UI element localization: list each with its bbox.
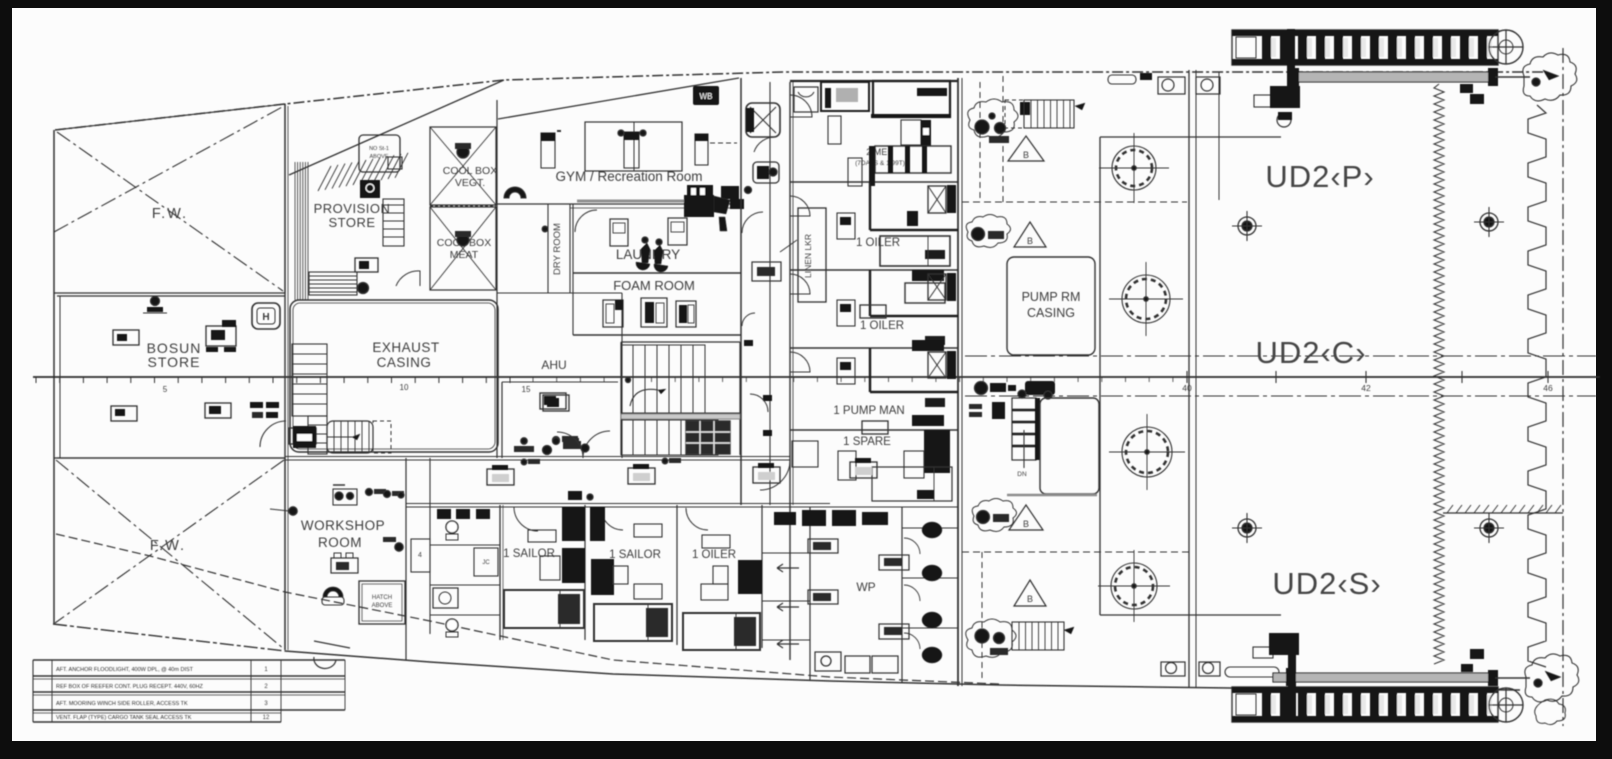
foam washer 1 bbox=[603, 300, 623, 327]
corridor end arc bbox=[760, 460, 790, 490]
svg-text:5: 5 bbox=[163, 385, 168, 394]
deck dashed line v3 bbox=[981, 552, 983, 680]
gym treadmill 1 bbox=[541, 131, 561, 168]
svg-text:B: B bbox=[1027, 236, 1033, 246]
provision hatched wall strip bbox=[295, 162, 308, 300]
sailor2 bed bbox=[594, 604, 672, 641]
cool box divider dashed bbox=[430, 205, 496, 207]
deck dashed line h top bbox=[962, 201, 1187, 203]
cabin divider 3 bbox=[790, 347, 958, 349]
aft perpendicular dash-dot bbox=[1562, 48, 1564, 726]
gym dark unit a bbox=[687, 185, 713, 199]
trunk top line bbox=[1100, 136, 1281, 138]
svg-text:STORE: STORE bbox=[148, 354, 201, 370]
bosun mirror crate 2 bbox=[205, 403, 231, 418]
foam room walls bbox=[573, 274, 741, 335]
stern ladder top bbox=[1232, 30, 1498, 65]
cabin3 wc unit bbox=[928, 273, 956, 301]
sailor2 locker bbox=[590, 507, 662, 541]
svg-text:DRY ROOM: DRY ROOM bbox=[552, 223, 563, 275]
stern sawtooth break bbox=[1528, 105, 1546, 667]
wp box 2 bbox=[808, 590, 838, 604]
notes table grid bbox=[33, 660, 345, 722]
bosun store label bbox=[147, 340, 202, 370]
cabin1 armchair bbox=[794, 87, 818, 112]
deck dashed line h bot bbox=[962, 551, 1189, 553]
main stair lower flight bbox=[621, 420, 718, 455]
deck fitting cross 1 bbox=[1232, 211, 1262, 241]
svg-text:1 SAILOR: 1 SAILOR bbox=[503, 548, 555, 560]
svg-text:H: H bbox=[262, 312, 269, 323]
provision scale blob bbox=[360, 180, 380, 198]
cabin2 bed bbox=[880, 236, 950, 266]
cloud1 dots bbox=[975, 113, 1009, 143]
wc toilet 1 bbox=[446, 521, 458, 540]
foam washer 3 bbox=[676, 301, 696, 327]
stern ladder bottom end circle bbox=[1489, 688, 1523, 722]
collision bulkhead fr double bbox=[285, 104, 288, 650]
wc arrows bbox=[777, 564, 799, 648]
corridor handle 1 bbox=[521, 459, 540, 465]
workshop phone bbox=[322, 587, 344, 605]
AHU room walls bbox=[497, 100, 622, 458]
AHU valve dot bbox=[553, 436, 579, 444]
svg-text:FOAM ROOM: FOAM ROOM bbox=[613, 278, 695, 293]
cabin4 desk bbox=[837, 358, 855, 384]
wp box 1 bbox=[808, 539, 838, 553]
stair block walls bbox=[621, 342, 740, 455]
manhole hatch 1 bbox=[1099, 133, 1169, 203]
svg-text:JC: JC bbox=[482, 560, 490, 566]
svg-text:MEAT: MEAT bbox=[450, 249, 479, 261]
svg-text:B: B bbox=[1027, 594, 1033, 604]
cool box vegt outline bbox=[430, 127, 496, 205]
workshop walls bbox=[406, 458, 430, 660]
laundry figures bbox=[636, 237, 668, 272]
svg-text:VEGT.: VEGT. bbox=[455, 177, 485, 189]
davit post bottom bbox=[1288, 640, 1296, 720]
cool box compressor 1 bbox=[455, 143, 471, 158]
deck slot bottom bbox=[1225, 667, 1279, 677]
cabin2 wc walls bbox=[870, 182, 958, 230]
cool box compressor 2 bbox=[455, 231, 471, 246]
manhole hatch 3 bbox=[1109, 414, 1185, 490]
gym dark unit b bbox=[721, 186, 752, 199]
stern cloud top bbox=[1523, 53, 1577, 101]
room15 valve bbox=[521, 438, 579, 445]
bollard pair bottom bbox=[1161, 662, 1220, 676]
workshop wall dot bbox=[270, 507, 297, 515]
room15 walls bbox=[502, 382, 618, 458]
deck fitting cross 3 bbox=[1232, 513, 1262, 543]
stern rail top bbox=[1290, 68, 1530, 86]
svg-text:4: 4 bbox=[418, 552, 422, 559]
svg-text:1 OILER: 1 OILER bbox=[860, 320, 904, 332]
exhaust stair wide bbox=[292, 344, 327, 416]
notes table row4 bbox=[56, 715, 270, 721]
linen locker bbox=[798, 208, 826, 302]
cool box vegt label bbox=[443, 165, 497, 189]
hatch above box fwd bbox=[359, 135, 400, 172]
dumbwaiter grid bbox=[686, 421, 730, 454]
wp box 4 bbox=[879, 624, 909, 639]
bosun aft label cluster bbox=[250, 402, 279, 418]
gym treadmill 3 bbox=[695, 134, 737, 165]
svg-text:ABOVE: ABOVE bbox=[372, 603, 393, 609]
stern small blocks top bbox=[1460, 84, 1484, 104]
aft stair down bbox=[1012, 398, 1040, 478]
wc box bbox=[474, 548, 498, 576]
cabin1 side boxes bbox=[848, 158, 862, 186]
svg-text:WP: WP bbox=[856, 580, 875, 594]
bosun person symbol bbox=[143, 297, 167, 314]
AHU door arc bbox=[583, 431, 610, 458]
cabin1 door arc bbox=[790, 95, 812, 117]
provision crate bbox=[355, 258, 378, 272]
pump rm casing bbox=[1007, 257, 1095, 355]
bosun aft wall bbox=[57, 457, 285, 459]
wp walls bbox=[762, 507, 902, 682]
warning triangle 4 bbox=[1014, 580, 1046, 606]
cabin1 table bbox=[901, 120, 931, 146]
dry room dot bbox=[542, 226, 548, 232]
upper FW tank diagonal a bbox=[57, 132, 283, 291]
bosun mirror desk bbox=[289, 428, 316, 444]
manhole hatch 4 bbox=[1098, 550, 1170, 622]
provision small box bbox=[388, 157, 402, 169]
svg-text:WB: WB bbox=[700, 92, 713, 101]
fairlead bump on deck edge bbox=[314, 657, 336, 669]
hatch symbol H bbox=[252, 303, 280, 329]
corridor door arc 1 bbox=[742, 212, 763, 233]
stern rail bottom bbox=[1273, 668, 1530, 686]
svg-text:46: 46 bbox=[1543, 383, 1553, 393]
cabin2 door arc bbox=[790, 196, 810, 216]
deck stair top bbox=[1005, 100, 1085, 128]
sailor cabin walls bbox=[585, 505, 762, 648]
corridor label box 2 bbox=[628, 464, 655, 484]
wc stack walls bbox=[430, 505, 503, 640]
deck fitting cross 4 bbox=[1474, 513, 1504, 543]
corridor phone bbox=[753, 162, 779, 183]
sailor1 locker bbox=[528, 507, 585, 542]
small cell 4 bbox=[411, 539, 430, 572]
machinery cloud 2 bbox=[966, 215, 1010, 248]
foam washer 2 bbox=[641, 298, 667, 327]
exhaust casing label bbox=[372, 340, 439, 370]
upper FW tank diagonal b bbox=[54, 106, 284, 232]
deck dashed line v1 bbox=[979, 82, 981, 202]
svg-text:CASING: CASING bbox=[1027, 306, 1075, 320]
davit fittings top bbox=[1254, 86, 1300, 127]
svg-text:NO St-1: NO St-1 bbox=[369, 146, 389, 152]
bosun aft door arc bbox=[260, 421, 286, 447]
laundry top dark blob bbox=[684, 195, 744, 231]
wc stack sink row bbox=[437, 509, 490, 519]
svg-text:STORE: STORE bbox=[328, 215, 375, 230]
svg-text:LINEN LKR: LINEN LKR bbox=[803, 234, 813, 278]
frame ruler ticks bbox=[36, 371, 1548, 383]
short ramp line bbox=[314, 641, 350, 648]
deck fitting cross 2 bbox=[1474, 207, 1504, 237]
hatched datum line bbox=[1443, 505, 1563, 513]
svg-text:COOL BOX: COOL BOX bbox=[443, 165, 497, 177]
notes table row1 bbox=[56, 667, 268, 673]
machinery cloud 3 bbox=[972, 499, 1016, 532]
deckhouse top wall bbox=[790, 80, 958, 82]
bow inner wall bbox=[59, 296, 61, 458]
corridor lower wall bbox=[406, 504, 958, 508]
oiler3 desk bbox=[701, 566, 728, 600]
bosun item crate 1 bbox=[113, 330, 139, 345]
gym bottom wall bbox=[497, 201, 741, 204]
workshop label bbox=[301, 518, 385, 550]
svg-text:PUMP RM: PUMP RM bbox=[1022, 290, 1081, 304]
warning triangle 3 bbox=[1009, 505, 1043, 530]
break zigzag line bbox=[1434, 84, 1444, 664]
corridor label box 1 bbox=[487, 465, 514, 485]
hull shell line aft (dashed) bbox=[56, 534, 1000, 684]
centerline CL bbox=[33, 376, 1600, 378]
stair curved arrow bbox=[626, 378, 667, 407]
cabin3 bits bbox=[905, 283, 945, 351]
corridor wall fwd b bbox=[769, 82, 771, 505]
deckhouse front sloped wall bbox=[289, 80, 504, 175]
trunk bottom line bbox=[1100, 614, 1281, 616]
wc washer bbox=[433, 588, 458, 608]
svg-text:WORKSHOP: WORKSHOP bbox=[301, 518, 385, 533]
corridor diagonal pipe bbox=[780, 240, 797, 252]
svg-text:DN: DN bbox=[1017, 471, 1027, 478]
duct line lower (dash-dot) bbox=[965, 395, 1596, 397]
cabin1 bed bbox=[871, 81, 951, 118]
cabin3 door arc bbox=[790, 274, 810, 294]
corridor door arc 2 bbox=[742, 313, 755, 326]
cabin4 bits bbox=[862, 398, 945, 434]
toilet bowls bbox=[922, 522, 942, 663]
svg-text:40: 40 bbox=[1182, 383, 1192, 393]
corridor wall fwd a bbox=[740, 78, 742, 505]
sailor2 wardrobe bbox=[591, 559, 662, 599]
cabin3 wc walls bbox=[870, 270, 958, 316]
workshop valves mid bbox=[366, 489, 405, 499]
svg-text:B: B bbox=[1023, 150, 1029, 160]
cloud3 dots bbox=[977, 511, 1010, 524]
hull sheer line top bbox=[55, 72, 1545, 130]
svg-text:REF BOX OF REEFER CONT. PLUG R: REF BOX OF REEFER CONT. PLUG RECEPT. 440… bbox=[56, 684, 203, 690]
oiler3 locker bbox=[702, 535, 762, 594]
svg-text:10: 10 bbox=[400, 383, 409, 392]
gym front wall bbox=[498, 78, 739, 119]
stair landing strip bbox=[621, 414, 740, 419]
lower FW tank diagonal a bbox=[56, 460, 284, 649]
exhaust stair narrow bbox=[308, 416, 327, 454]
room15 crate bbox=[543, 395, 569, 411]
svg-text:EXHAUST: EXHAUST bbox=[372, 340, 439, 355]
dry room walls bbox=[548, 204, 570, 293]
davit post top bbox=[1287, 29, 1295, 89]
sailor1 bed bbox=[504, 590, 584, 628]
svg-text:1 OILER: 1 OILER bbox=[856, 237, 900, 249]
trunk rail posts bbox=[1189, 70, 1196, 688]
oiler3 door arc bbox=[686, 508, 708, 530]
warning triangle 1 bbox=[1008, 136, 1044, 161]
cabin2 wc unit bbox=[928, 185, 956, 213]
sink row bbox=[774, 510, 888, 526]
CL winch cluster bbox=[975, 381, 1056, 399]
hatch joint line bbox=[1218, 72, 1220, 200]
svg-text:1 OILER: 1 OILER bbox=[692, 549, 736, 561]
svg-text:1 SAILOR: 1 SAILOR bbox=[609, 549, 661, 561]
spare furniture bbox=[792, 430, 952, 501]
fire box corridor bbox=[752, 262, 781, 281]
corridor door arc top bbox=[754, 137, 776, 152]
svg-text:UD2‹S›: UD2‹S› bbox=[1272, 566, 1381, 601]
cabin2 bits bbox=[907, 211, 945, 281]
toilet door arcs bbox=[904, 538, 920, 649]
corridor upper wall bbox=[285, 457, 790, 461]
wp box 3 bbox=[879, 555, 909, 570]
svg-text:ROOM: ROOM bbox=[318, 535, 362, 550]
workshop wall dot 2 bbox=[383, 537, 403, 551]
davit fittings bottom bbox=[1253, 633, 1299, 658]
warning triangle 2 bbox=[1014, 222, 1046, 247]
cool box meat label bbox=[437, 237, 491, 261]
cabin 2MEN label bbox=[855, 147, 905, 167]
svg-text:1 PUMP MAN: 1 PUMP MAN bbox=[833, 405, 904, 417]
svg-text:12: 12 bbox=[263, 715, 270, 721]
laundry washer 2 bbox=[668, 218, 687, 245]
svg-text:UD2‹P›: UD2‹P› bbox=[1265, 159, 1374, 194]
workshop battery bbox=[331, 553, 358, 573]
svg-text:B: B bbox=[1023, 519, 1029, 529]
gym table bbox=[585, 122, 682, 171]
lower FW tank diagonal b bbox=[55, 460, 284, 623]
aft small room bbox=[1007, 398, 1099, 495]
cabin1 locker row bbox=[869, 146, 951, 186]
sloped hatch marks bbox=[318, 153, 408, 191]
deck dashed line v2 bbox=[1002, 76, 1004, 202]
oiler3 bed bbox=[683, 613, 760, 650]
cabin2 desk bbox=[837, 213, 855, 239]
stern ladder bottom bbox=[1232, 687, 1498, 722]
cabin divider 4 bbox=[790, 429, 958, 431]
stern small blocks bottom bbox=[1461, 649, 1484, 672]
svg-text:(7DAYS & 1 99T): (7DAYS & 1 99T) bbox=[855, 160, 905, 167]
gym WB box bbox=[693, 86, 719, 105]
cabin4 wc walls bbox=[870, 348, 958, 392]
AHU crate bbox=[540, 393, 566, 409]
cabin4 door arc bbox=[790, 352, 810, 372]
cloud4 dots bbox=[975, 629, 1008, 655]
machinery cloud 1 bbox=[968, 99, 1018, 137]
cabin divider 2 bbox=[790, 269, 958, 271]
svg-text:42: 42 bbox=[1361, 383, 1371, 393]
svg-text:PROVISION: PROVISION bbox=[314, 201, 391, 216]
corridor wall marks bbox=[744, 340, 772, 436]
svg-text:AFT. ANCHOR FLOODLIGHT, 400W D: AFT. ANCHOR FLOODLIGHT, 400W DPL, @ 40m … bbox=[56, 667, 194, 673]
svg-text:F.W.: F.W. bbox=[152, 206, 188, 222]
sailor1 door arc bbox=[514, 507, 538, 531]
cabin3 desk bbox=[837, 300, 855, 326]
room15 door arc bbox=[557, 432, 583, 458]
upper FW tank outline bbox=[54, 104, 285, 293]
cool box meat outline bbox=[430, 207, 496, 290]
svg-text:AFT. MOORING WINCH SIDE ROLLER: AFT. MOORING WINCH SIDE ROLLER, ACCESS T… bbox=[56, 701, 188, 707]
deck stair bottom bbox=[1012, 622, 1074, 650]
hull deck edge bottom bbox=[285, 651, 1520, 690]
svg-text:F.W.: F.W. bbox=[150, 538, 186, 554]
cabin1 tv unit bbox=[821, 82, 869, 111]
toilet cells bbox=[902, 528, 958, 628]
cabin1 desk bbox=[828, 116, 841, 144]
hull deck edge bow bbox=[53, 624, 285, 651]
stern ladder top end circle bbox=[1489, 30, 1523, 64]
notes table row3 bbox=[56, 701, 268, 707]
sailor1 wardrobe bbox=[540, 548, 585, 583]
provision door arc bbox=[396, 271, 420, 286]
laundry walls bbox=[570, 204, 741, 274]
corridor handle 2 bbox=[568, 458, 681, 500]
workshop drill bbox=[333, 485, 357, 505]
svg-text:1 SPARE: 1 SPARE bbox=[843, 436, 891, 448]
exhaust fan unit bbox=[293, 426, 316, 448]
corridor dumbwaiter bbox=[746, 103, 780, 137]
aft label bits bbox=[969, 402, 1005, 419]
provision stair bbox=[383, 199, 404, 246]
svg-text:UD2‹C›: UD2‹C› bbox=[1255, 335, 1366, 370]
deckhouse aft wall double bbox=[958, 78, 962, 686]
corridor label box 3 bbox=[753, 463, 780, 483]
manhole hatch 2 bbox=[1109, 262, 1183, 336]
bow stem line bbox=[53, 130, 55, 624]
wc toilet 2 bbox=[446, 619, 458, 637]
cabin divider 1 bbox=[790, 181, 958, 183]
lower FW tank outline bbox=[54, 458, 285, 650]
svg-text:VENT. FLAP (TYPE) CARGO TANK S: VENT. FLAP (TYPE) CARGO TANK SEAL ACCESS… bbox=[56, 715, 192, 721]
trunk left wall bbox=[1099, 137, 1101, 615]
main stair upper flight bbox=[621, 345, 740, 413]
cabin4 wc unit bbox=[928, 351, 956, 379]
gym treadmill 2 bbox=[618, 130, 646, 168]
stern cloud bottom bbox=[1525, 654, 1579, 725]
deck slot top bbox=[1108, 73, 1152, 84]
bosun fwd wall top bbox=[57, 295, 285, 297]
hatch above box aft bbox=[359, 581, 405, 624]
gym rowing machine bbox=[504, 187, 526, 198]
bosun item crate 2 bbox=[206, 320, 236, 352]
bollard pair top bbox=[1158, 77, 1220, 94]
corridor label box 4 bbox=[850, 458, 877, 478]
escape trunk ladder bbox=[327, 421, 391, 453]
laundry washer 1 bbox=[610, 219, 628, 246]
laundry door arc bbox=[575, 210, 597, 232]
svg-text:HATCH: HATCH bbox=[372, 595, 392, 601]
stair door arc aft bbox=[750, 394, 768, 412]
provision store label bbox=[314, 201, 391, 230]
duct line upper (dash-dot) bbox=[965, 355, 1596, 357]
machinery cloud 4 bbox=[966, 619, 1016, 657]
wp washers bbox=[815, 652, 898, 673]
room15 valve cluster bbox=[514, 441, 589, 455]
svg-text:CASING: CASING bbox=[377, 355, 432, 370]
svg-text:15: 15 bbox=[522, 385, 531, 394]
cabin block wall double bbox=[790, 82, 793, 660]
exhaust casing room bbox=[290, 300, 498, 452]
cloud2 dots bbox=[972, 228, 1005, 241]
notes table row2 bbox=[56, 684, 268, 690]
sailor2 door arc bbox=[601, 508, 623, 530]
